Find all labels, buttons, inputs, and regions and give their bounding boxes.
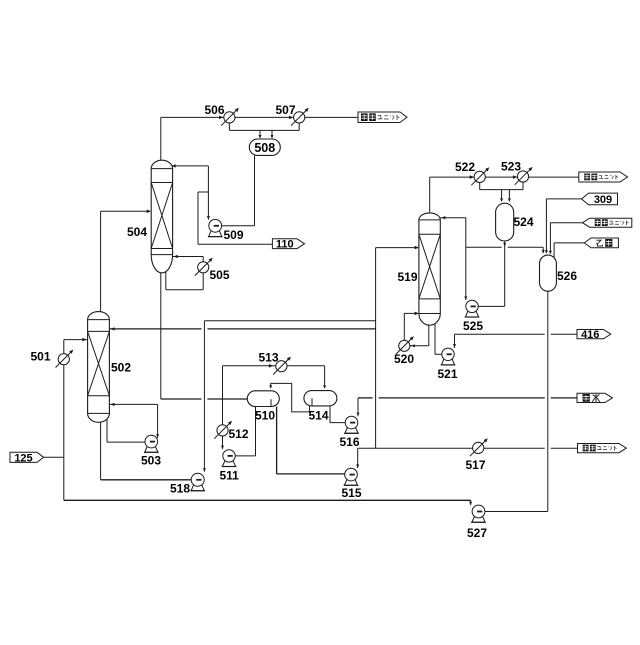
- svg-text:522: 522: [455, 160, 475, 174]
- svg-text:309: 309: [594, 194, 612, 206]
- heat exchanger 512: [214, 421, 232, 439]
- wire: condensate header y=189.6: [480, 189, 523, 191]
- pump 509: [208, 219, 223, 236]
- wire: distillate branch y=247.2 to 526 (break at 524 bottoms): [466, 246, 502, 248]
- wire: drum 510 bottom left outlet to 511: [255, 407, 257, 456]
- svg-text:509: 509: [224, 228, 244, 242]
- flag: vacuum unit (mid right, inlet): [583, 218, 632, 227]
- heat exchanger 513: [273, 357, 291, 375]
- wire: product header y=334.2 to flag 416 (break at 526 bottoms): [455, 333, 545, 335]
- heat exchanger 517: [470, 438, 488, 456]
- flag 416: [577, 329, 611, 341]
- pump 516: [344, 416, 359, 433]
- wire: 527 discharge riser: [470, 500, 472, 505]
- wire: hot water header y=397.9 to flag (breaks at riser and 526 bottoms): [358, 397, 373, 399]
- flag: vacuum unit (upper right): [579, 172, 628, 182]
- svg-text:526: 526: [557, 269, 577, 283]
- wire: 519 overhead riser: [429, 177, 431, 213]
- heat exchanger 507: [291, 108, 309, 126]
- wire: 502 overhead to 504 feed nozzle: [101, 210, 150, 212]
- heat exchanger 520: [396, 336, 414, 354]
- svg-text:510: 510: [255, 409, 275, 423]
- pump 518: [190, 473, 205, 490]
- wire: 521 discharge riser: [454, 334, 456, 348]
- wire: top header y=117 from 504 riser through 506,507 to vacuum flag: [161, 116, 358, 118]
- wire: 523 drop: [522, 177, 524, 190]
- svg-text:516: 516: [340, 435, 360, 449]
- wire: return into 504 top right nozzle: [171, 165, 209, 167]
- wire: 516 discharge riser: [357, 398, 359, 416]
- wire: 518 discharge riser x=204.4: [203, 321, 205, 472]
- heat exchanger 506: [221, 108, 239, 126]
- wire: 520 return into 519 bottom left: [404, 312, 418, 314]
- svg-text:520: 520: [394, 352, 414, 366]
- wire: 504 overhead riser to top header: [160, 117, 162, 160]
- wire: 514 bottom left outlet jog to 510 top: [271, 383, 310, 412]
- svg-text:517: 517: [466, 458, 486, 472]
- wire: drop into 524 left nozzle: [501, 190, 503, 201]
- svg-text:514: 514: [309, 409, 329, 423]
- flag: hot water: [577, 393, 613, 402]
- wire: 519 reboiler draw to 520: [428, 325, 430, 346]
- pump 527: [471, 505, 486, 522]
- svg-text:502: 502: [111, 361, 131, 375]
- wire: 518 discharge header y=320.7 to main riser: [204, 320, 375, 322]
- wire: 505 return into 504 right side: [173, 256, 204, 258]
- svg-text:505: 505: [210, 268, 230, 282]
- svg-text:515: 515: [342, 486, 362, 500]
- wire: 514 bottom right outlet to 516: [329, 406, 331, 423]
- wire: drop into 524 right nozzle: [508, 190, 510, 201]
- svg-text:521: 521: [438, 367, 458, 381]
- svg-text:518: 518: [170, 482, 190, 496]
- svg-text:525: 525: [463, 319, 483, 333]
- pump 525: [465, 300, 480, 317]
- wire: 502 bottom outlet to 503: [106, 418, 108, 442]
- wire: 511 discharge riser through 512: [222, 366, 224, 449]
- flag: vacuum unit (top): [358, 112, 407, 123]
- pump 515: [344, 468, 359, 485]
- wire: 505 vertical through exchanger: [202, 257, 204, 290]
- wire: 524 bottoms down to 525 suction level: [504, 241, 506, 306]
- svg-text:504: 504: [127, 225, 147, 239]
- wire: 513 line y=365.8 to 514: [223, 365, 325, 367]
- arrow into 522: [470, 175, 474, 179]
- flag: ethylbenzene: [584, 238, 618, 248]
- wire: reflux into 519 top right: [440, 217, 466, 219]
- pump 511: [222, 450, 237, 467]
- wire: 519 feed line y=247.6: [376, 247, 418, 249]
- wire: drum 510 bottom right outlet to 515: [276, 407, 278, 474]
- column 519: [419, 213, 440, 325]
- svg-text:511: 511: [220, 469, 240, 483]
- wire: 515 discharge riser: [357, 448, 359, 468]
- heat exchanger 522: [471, 167, 489, 185]
- wire: 508 bottoms down: [254, 155, 256, 225]
- wire: 506 drop to condensate header: [228, 117, 230, 130]
- wire: 509 connection riser to 504 top: [207, 166, 209, 220]
- svg-text:503: 503: [141, 454, 161, 468]
- heat exchanger 505: [195, 258, 213, 276]
- vessel 524: [496, 203, 514, 241]
- column 502: [88, 312, 110, 423]
- wire: 525 discharge riser x=465.8: [465, 218, 467, 300]
- drum 510: [247, 391, 279, 407]
- svg-text:524: 524: [514, 215, 534, 229]
- wire: flag 309 line into 526: [546, 198, 581, 200]
- wire: drop into 526 from 525 branch: [542, 247, 544, 252]
- svg-text:416: 416: [581, 329, 599, 341]
- arrow into 507: [289, 116, 293, 120]
- wire: recycle downleg x=63.8: [63, 457, 65, 500]
- svg-text:501: 501: [31, 350, 51, 364]
- svg-text:519: 519: [398, 270, 418, 284]
- wire: feed 125 to junction: [43, 456, 64, 458]
- wire: bottom recycle header y=500.3: [64, 499, 471, 501]
- wire: 526 bottoms into pump 527: [479, 511, 548, 513]
- arrow into 520 right side: [411, 344, 415, 347]
- wire: reflux header y=328.9 from 502 to main riser (break at 518 riser): [109, 328, 201, 330]
- wire: 519 bottoms to 521: [434, 322, 436, 355]
- flag 110: [272, 239, 304, 251]
- column 504: [151, 160, 172, 273]
- wire: drop into 508 left nozzle: [259, 130, 261, 137]
- svg-text:506: 506: [205, 103, 225, 117]
- wire: ethylbenzene flag line into 526: [554, 242, 584, 244]
- svg-text:125: 125: [14, 452, 32, 464]
- vessel 526: [540, 255, 557, 291]
- wire: vacuum line y=448.2 through 517 to flag (break at 526 bottoms): [358, 447, 545, 449]
- wire: feed riser x=63.8 through 501: [63, 340, 65, 458]
- heat exchanger 501: [56, 350, 74, 368]
- svg-text:507: 507: [276, 103, 296, 117]
- wire: 520 riser to 519 return: [403, 313, 405, 340]
- wire: drop into 514 top: [324, 366, 326, 388]
- wire: feed into 502 left nozzle: [64, 339, 88, 341]
- wire: 504 bottoms long drop x=160.8: [160, 271, 162, 399]
- svg-text:508: 508: [254, 141, 275, 155]
- svg-text:512: 512: [229, 427, 249, 441]
- pump 521: [441, 348, 456, 365]
- flag: vacuum unit (lower right): [578, 444, 627, 453]
- wire: 505 bottom horizontal: [166, 289, 203, 291]
- wire: 504 bottom dome draw to 505: [165, 270, 167, 290]
- wire: 524 bottoms into pump 525: [472, 305, 505, 307]
- wire: 522 drop: [479, 177, 481, 190]
- svg-text:110: 110: [276, 239, 294, 251]
- arrow into 506: [219, 116, 223, 120]
- wire: vacuum unit flag line into 526: [550, 222, 582, 224]
- pump 503: [144, 435, 159, 452]
- flag 309: [582, 193, 618, 206]
- drum 510 internal weir: [270, 399, 272, 406]
- wire: branch notch y=192: [198, 191, 208, 193]
- svg-text:527: 527: [467, 526, 487, 540]
- svg-text:523: 523: [501, 160, 521, 174]
- wire: distillate down leg x=198: [197, 192, 199, 244]
- svg-text:513: 513: [259, 350, 279, 364]
- arrow into 523: [513, 175, 517, 179]
- drum 508: [249, 139, 280, 155]
- wire: 502 bottoms to pump 518: [101, 479, 198, 481]
- wire: 503 return into 502 right side: [109, 403, 157, 405]
- wire: distillate line to flag 110: [198, 243, 272, 245]
- wire: 504 bottoms to drum 510 feed (break at 518 riser): [161, 398, 202, 400]
- wire: 507 drop: [298, 117, 300, 130]
- wire: 519 overhead header y=177.1 through 522,523 to vacuum flag: [430, 176, 579, 178]
- flag 125: [10, 452, 44, 464]
- drum 514: [304, 391, 337, 406]
- wire: 503 discharge riser: [157, 404, 159, 438]
- wire: 502 overhead riser: [100, 211, 102, 312]
- drum 514 internal weir: [311, 398, 313, 405]
- wire: 508 bottoms into pump 509 suction: [222, 225, 255, 227]
- wire: 526 bottoms down right side: [547, 291, 549, 511]
- wire: main riser x=375.6 to 519 feed: [375, 248, 377, 449]
- wire: condensate header y=130.4 between 506 and 507 drops: [229, 129, 299, 131]
- wire: 502 bottoms drop x=100.6: [100, 422, 102, 480]
- wire: drop into 508 right nozzle: [271, 130, 273, 137]
- heat exchanger 523: [515, 167, 533, 185]
